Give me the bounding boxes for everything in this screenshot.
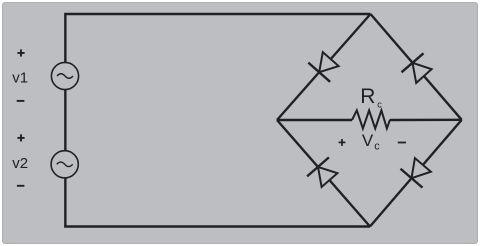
- wire resistor right lead: [390, 119, 462, 122]
- label plus of v1: [17, 49, 24, 56]
- diode D4 lower-right (triangle + cathode bar): [401, 158, 431, 188]
- diode D1 upper-left (triangle + cathode bar): [308, 52, 338, 82]
- label plus of Vc: [339, 139, 346, 146]
- label minus of v2: [17, 185, 25, 187]
- wire bridge arm lower-right: [370, 120, 462, 227]
- label minus of Vc: [398, 142, 406, 144]
- wire between source v1 and source v2: [64, 90, 66, 151]
- wire top horizontal: [65, 13, 370, 15]
- label minus of v1: [17, 100, 25, 102]
- svg-text:v2: v2: [12, 155, 28, 172]
- wire left upper segment: [64, 13, 66, 63]
- svg-text:R: R: [360, 85, 375, 108]
- svg-text:c: c: [374, 141, 380, 153]
- label plus of v2: [17, 134, 24, 141]
- wire bridge arm upper-left: [277, 14, 371, 120]
- svg-text:v1: v1: [12, 69, 28, 86]
- wire bottom horizontal: [64, 225, 370, 227]
- wire bridge arm lower-left: [277, 120, 370, 227]
- wire bridge arm upper-right: [371, 14, 462, 120]
- wire resistor left lead: [277, 119, 352, 121]
- diode D2 upper-right (triangle + cathode bar): [402, 53, 432, 83]
- source v1: [51, 62, 78, 89]
- diode D3 lower-left (triangle + cathode bar): [307, 157, 337, 187]
- resistor Rc zigzag: [352, 110, 390, 128]
- source v2: [51, 151, 78, 178]
- svg-text:c: c: [377, 99, 382, 109]
- svg-text:V: V: [362, 131, 374, 150]
- wire left lower segment: [64, 178, 66, 227]
